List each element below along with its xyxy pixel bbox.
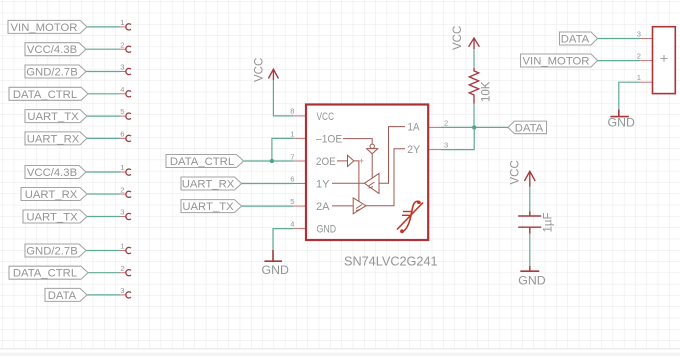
svg-text:6: 6 xyxy=(290,175,294,184)
svg-text:GND: GND xyxy=(262,263,289,277)
svg-text:GND: GND xyxy=(518,274,545,288)
svg-text:3: 3 xyxy=(120,63,124,72)
svg-text:1: 1 xyxy=(120,242,124,251)
svg-text:VIN_MOTOR: VIN_MOTOR xyxy=(11,22,78,34)
svg-text:DATA_CTRL: DATA_CTRL xyxy=(13,268,77,280)
svg-text:UART_TX: UART_TX xyxy=(182,201,234,213)
svg-text:2: 2 xyxy=(120,264,124,273)
svg-text:GND/2.7B: GND/2.7B xyxy=(26,67,77,79)
svg-text:VCC/4.3B: VCC/4.3B xyxy=(27,167,77,179)
svg-text:UART_RX: UART_RX xyxy=(27,133,80,145)
svg-text:1: 1 xyxy=(637,73,641,82)
svg-text:2: 2 xyxy=(637,51,641,60)
svg-text:1µF: 1µF xyxy=(543,212,555,232)
svg-text:1: 1 xyxy=(120,18,124,27)
svg-text:DATA: DATA xyxy=(48,290,77,302)
svg-text:DATA_CTRL: DATA_CTRL xyxy=(13,89,77,101)
svg-text:VCC: VCC xyxy=(509,160,521,184)
svg-text:VCC: VCC xyxy=(254,58,266,82)
svg-text:4: 4 xyxy=(290,220,294,229)
svg-text:VCC/4.3B: VCC/4.3B xyxy=(27,44,77,56)
svg-text:2: 2 xyxy=(444,118,448,127)
svg-text:2: 2 xyxy=(120,40,124,49)
svg-text:DATA: DATA xyxy=(561,34,590,46)
svg-text:UART_TX: UART_TX xyxy=(27,111,79,123)
svg-text:UART_RX: UART_RX xyxy=(25,189,78,201)
svg-text:2Y: 2Y xyxy=(407,144,421,156)
svg-text:5: 5 xyxy=(120,107,124,116)
svg-text:4: 4 xyxy=(120,85,124,94)
svg-text:GND: GND xyxy=(317,224,337,236)
svg-text:VCC: VCC xyxy=(317,111,335,123)
svg-text:6: 6 xyxy=(120,130,124,139)
svg-text:3: 3 xyxy=(120,286,124,295)
svg-text:2OE: 2OE xyxy=(316,156,336,168)
svg-text:DATA_CTRL: DATA_CTRL xyxy=(170,156,234,168)
svg-text:2: 2 xyxy=(120,185,124,194)
svg-text:GND/2.7B: GND/2.7B xyxy=(26,246,77,258)
svg-text:8: 8 xyxy=(290,107,294,116)
svg-text:VCC: VCC xyxy=(452,26,464,50)
svg-text:3: 3 xyxy=(120,208,124,217)
svg-text:UART_RX: UART_RX xyxy=(182,178,235,190)
svg-text:–1OE: –1OE xyxy=(316,134,342,146)
svg-text:1: 1 xyxy=(290,130,294,139)
svg-text:VIN_MOTOR: VIN_MOTOR xyxy=(523,56,590,68)
svg-text:GND: GND xyxy=(608,116,635,130)
svg-text:UART_TX: UART_TX xyxy=(26,212,78,224)
svg-text:2A: 2A xyxy=(316,201,330,213)
svg-text:1A: 1A xyxy=(408,122,421,134)
svg-text:5: 5 xyxy=(290,197,294,206)
svg-text:SN74LVC2G241: SN74LVC2G241 xyxy=(344,255,438,269)
svg-text:1: 1 xyxy=(120,163,124,172)
svg-text:10K: 10K xyxy=(481,81,493,102)
svg-text:DATA: DATA xyxy=(515,122,544,134)
svg-text:3: 3 xyxy=(444,141,448,150)
svg-text:3: 3 xyxy=(637,30,641,39)
svg-text:7: 7 xyxy=(290,152,294,161)
svg-text:1Y: 1Y xyxy=(316,178,330,190)
